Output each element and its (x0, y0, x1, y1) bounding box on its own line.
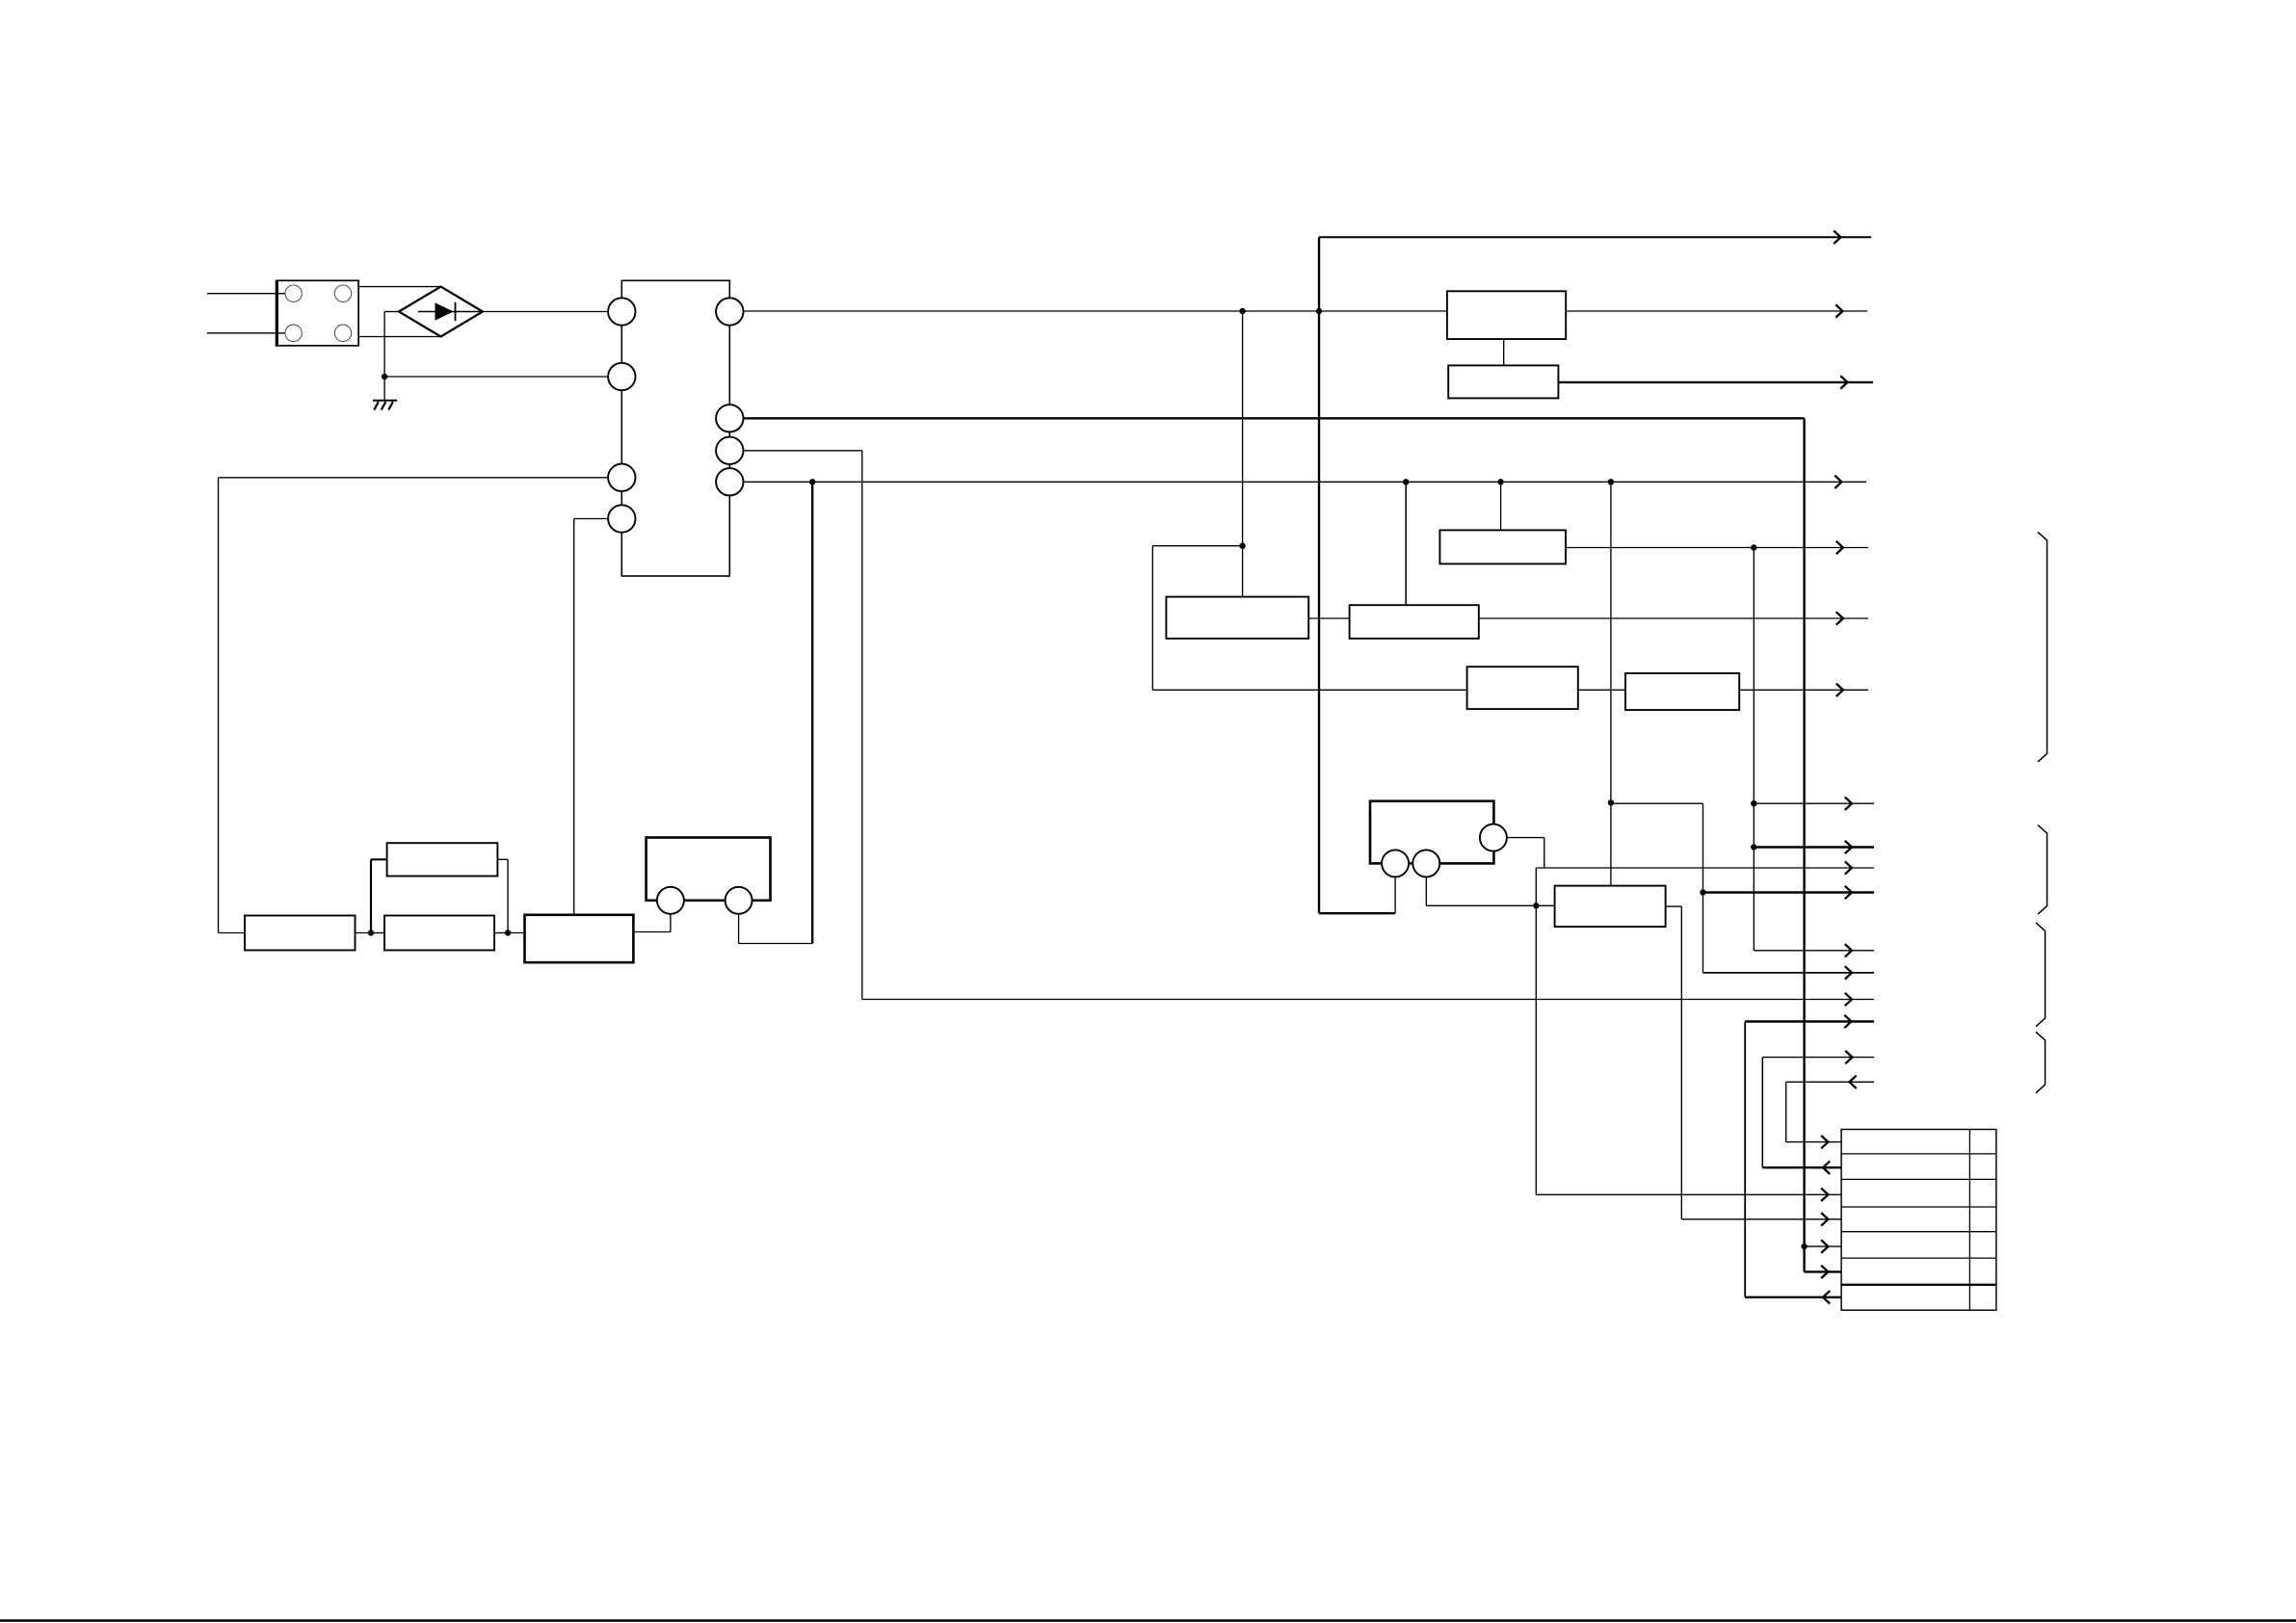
wire pin P4 lead (574, 518, 608, 520)
arrow output y878 (1845, 841, 1852, 853)
wire branch across to right column (1611, 802, 1703, 804)
bracket group 3 (2036, 923, 2045, 1027)
arrow output P8 rail (1834, 476, 1841, 488)
wire table row1 line (1786, 1141, 1841, 1143)
ground hatch 3 (388, 402, 393, 409)
table row line 5 (1841, 1257, 1996, 1259)
wire bus riser to relay K1 (1394, 877, 1396, 913)
wire bypass top left link (371, 858, 387, 860)
rectifier D1 diode axis line (418, 311, 482, 313)
wire thick arrow line y878 (1754, 846, 1874, 848)
block driver H (384, 916, 494, 951)
rectifier D1 diamond body (399, 287, 483, 337)
connector J1 (AC inlet) (277, 280, 358, 346)
wire P5 output rail (744, 310, 1447, 312)
wire block C to block D (1308, 617, 1349, 619)
node P5 rail at bus (1316, 308, 1322, 314)
node right column drop A lower (1751, 844, 1756, 850)
node branch to right column (1608, 799, 1614, 805)
wire thick arrow line y1089 (1745, 1020, 1874, 1022)
wire drop to block F top (1610, 482, 1612, 885)
wire riser to switch S1 (670, 914, 672, 932)
arrow into table row5 (1821, 1240, 1828, 1252)
wire block F drop (1680, 906, 1682, 1219)
table row line 3 (1841, 1206, 1996, 1208)
pin P5 (716, 298, 743, 325)
wire block D output (1479, 617, 1868, 619)
wire pin P4 drop to relay driver (573, 519, 575, 915)
block driver G (245, 916, 356, 951)
wire long left feed to pin P3 (219, 477, 609, 479)
arrow into table row6 (1821, 1266, 1828, 1278)
wire left feed to block G (219, 932, 246, 934)
wire K3 lead (1507, 837, 1544, 839)
wire thick bus vertical (1318, 237, 1320, 913)
wire P6 thick run (744, 417, 1805, 419)
relay coil J bold box (525, 915, 634, 962)
wire arrow line y1156 incoming (1786, 1081, 1874, 1083)
node P8 rail to block F (1608, 479, 1614, 484)
wire node to block F (1536, 904, 1554, 906)
node P8 rail to switch net (809, 479, 815, 484)
arrow output y985 (1845, 944, 1852, 956)
wire K3 elbow down (1544, 838, 1545, 868)
block D (1350, 605, 1479, 639)
connector J1 thick left edge (276, 280, 278, 347)
wire ground node to pin P2 (384, 376, 608, 378)
wire bypass right link (497, 858, 508, 860)
wire switch S2 link vertical (738, 914, 740, 944)
block C (1166, 597, 1308, 639)
node on P5 rail (1239, 308, 1245, 314)
wire bypass left riser thick (370, 859, 372, 932)
wire AC input line 2 (207, 332, 285, 334)
wire regulator A to B link (1503, 339, 1505, 365)
wire drop to block D top (1405, 482, 1407, 605)
wire block F run to table row4 (1681, 1218, 1841, 1220)
table row line 2 (1841, 1178, 1996, 1180)
wire K2-net run to table row3 (1536, 1193, 1841, 1195)
block M (1467, 667, 1578, 709)
wire block F output (1666, 905, 1682, 907)
pin P1 (608, 298, 635, 325)
pin P4 (608, 505, 635, 532)
wire U-branch vertical (1151, 546, 1153, 691)
arrow into table row1 (1821, 1136, 1828, 1148)
wire U-branch left (1152, 545, 1242, 547)
pin P7 (716, 437, 743, 464)
rectifier D1 diode triangle (435, 302, 454, 320)
wire K2 drop (1425, 877, 1427, 905)
block regulator B (1448, 365, 1558, 398)
arrow output regulator B (1840, 376, 1847, 388)
block regulator A (1447, 291, 1566, 339)
wire arrow line y1010 (1703, 972, 1875, 974)
table column divider (1968, 1130, 1970, 1311)
wire arrow line y833 (1754, 802, 1874, 804)
arrow output y833 (1845, 798, 1852, 810)
connector J1 pin hole 1 (285, 285, 302, 301)
bracket group 2 (2038, 825, 2047, 915)
wire P7 lead (744, 450, 862, 452)
wire block H to node (494, 932, 508, 934)
wire drop from P5 rail node (1242, 311, 1244, 546)
connector J1 pin hole 3 (285, 325, 302, 341)
wire K2 run to node (1426, 904, 1536, 906)
wire arrow line y985 (1754, 950, 1874, 952)
rectifier D1 cathode bar / plus mark (455, 302, 457, 321)
relay contact K2 (1412, 850, 1439, 877)
wire node to relay coil J (508, 932, 524, 934)
ground bar (373, 400, 397, 402)
wire branch to table row5 (1805, 1245, 1842, 1247)
wire node to block H (371, 932, 384, 934)
wire drop to block E top (1500, 482, 1502, 530)
relay contact K1 (1382, 850, 1409, 877)
pin P6 (716, 405, 743, 432)
node P8 rail to block D (1403, 479, 1409, 484)
node right column drop B (1700, 889, 1705, 895)
wire J1 to rectifier top (358, 286, 440, 288)
table row line 1 (1841, 1153, 1996, 1155)
block bypass I (387, 843, 498, 876)
wire thick arrow line y925 (1703, 891, 1875, 893)
wire J1 to rectifier bottom (358, 336, 440, 338)
wire switch S2 link horizontal (739, 943, 813, 945)
node above block C (1239, 543, 1245, 549)
block F (1555, 886, 1666, 928)
ground hatch 2 (382, 402, 386, 409)
wire arrow line y1124 (1762, 1057, 1874, 1059)
connector table outline (1841, 1130, 1996, 1311)
node chain 1 (368, 929, 374, 935)
pin P2 (608, 363, 635, 390)
arrow output bus top (1834, 231, 1840, 244)
page bottom rule (0, 1619, 2296, 1622)
wire ground node vertical (383, 312, 385, 378)
switch box S bold outline (647, 838, 771, 901)
wire AC input line 1 (207, 293, 285, 295)
node K2 net (1533, 903, 1539, 908)
arrow output y900 (1845, 861, 1852, 874)
wire thick table row2 line (1762, 1166, 1841, 1168)
connector J1 pin hole 2 (334, 285, 351, 301)
power block U1 outline (621, 280, 729, 576)
arrow out of table row8 (1823, 1291, 1830, 1303)
block N (1625, 673, 1739, 710)
wire regulator B output thick (1558, 381, 1873, 383)
wire K2-net riser (1535, 868, 1537, 1194)
arrow input y1156 (1850, 1076, 1857, 1088)
wire P6 thick elbow (1803, 1246, 1805, 1271)
arrow output block E (1836, 541, 1843, 554)
arrow output y1089 (1844, 1015, 1851, 1028)
node right column drop A upper (1751, 800, 1756, 806)
arrow output y925 (1845, 886, 1852, 899)
arrow into table row4 (1821, 1213, 1828, 1225)
wire P7 drop (861, 451, 863, 1000)
wire thick table row8 line (1745, 1296, 1841, 1298)
table row line 6 (1841, 1284, 1996, 1286)
block E (1439, 530, 1566, 563)
arrow output P5 rail (1835, 304, 1842, 317)
wire thick bus bottom run (1319, 912, 1395, 914)
wire thick into table row6 (1805, 1270, 1842, 1272)
wire block M to N (1578, 689, 1625, 691)
node ground junction (382, 374, 387, 380)
wire block N output (1739, 689, 1868, 691)
bracket group 4 (2036, 1032, 2045, 1092)
wire rail through regulator to arrow (1566, 310, 1867, 312)
wire P6 thick drop (1803, 418, 1805, 1246)
wire relay coil J output (633, 931, 671, 933)
relay contact K3 (1480, 825, 1507, 851)
wire riser from table row1 (1785, 1082, 1787, 1141)
wire rectifier to pin P1 (483, 311, 608, 313)
pin P3 (608, 464, 635, 491)
node block E output branch (1751, 544, 1756, 550)
wire block G to node (356, 932, 372, 934)
wire thick drop to switch S2 (811, 482, 813, 943)
arrow output y1010 (1845, 966, 1852, 979)
wire right column drop A (1753, 548, 1755, 951)
ground stem (383, 377, 385, 401)
arrow output P7 line (1845, 993, 1852, 1006)
wire arrow line y900 (1536, 867, 1874, 869)
connector J1 pin hole 4 (334, 325, 351, 341)
wire thick riser from table row8 (1744, 1022, 1746, 1297)
arrow into table row3 (1821, 1189, 1828, 1201)
arrow output y1124 (1845, 1051, 1852, 1063)
bracket group 1 (2038, 532, 2047, 762)
wire U-branch bottom run (1152, 689, 1466, 691)
wire rectifier left vertex to ground node (384, 311, 399, 313)
wire P7 long run to arrow (862, 999, 1874, 1001)
wire block E output (1566, 547, 1868, 549)
switch contact S2 (726, 887, 752, 914)
node P6 drop branch (1801, 1243, 1807, 1249)
relay box K bold outline (1370, 801, 1493, 864)
table row line 4 (1841, 1231, 1996, 1233)
wire node drop to block C (1242, 546, 1244, 597)
pin P8 (716, 468, 743, 495)
wire thick bus top run to arrow (1319, 236, 1871, 238)
node chain 2 (505, 929, 511, 935)
switch contact S1 (657, 887, 684, 914)
wire bypass right drop (507, 859, 509, 932)
wire thick riser from table row2 (1761, 1058, 1763, 1168)
wire right column drop B (1702, 803, 1704, 973)
wire left feed vertical (218, 478, 220, 933)
node P8 rail to block E (1497, 479, 1503, 484)
arrow output block D (1836, 612, 1843, 624)
arrow out of table row2 (1823, 1162, 1830, 1174)
ground hatch 1 (374, 402, 379, 409)
arrow output block N (1836, 684, 1843, 696)
wire P8 long rail (744, 481, 1867, 483)
